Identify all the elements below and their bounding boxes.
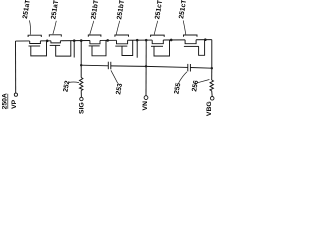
transistor 251aT (T2) gate lead <box>56 41 71 56</box>
node dot mid pair1 <box>46 40 49 43</box>
transistor 251cT (T6) gate lead <box>199 40 205 56</box>
wire VN branch vertical <box>145 40 147 96</box>
transistor 251bT (T4) gate lead <box>122 40 133 55</box>
capacitor 253 left plate <box>107 62 109 69</box>
resistor 252 zigzag <box>80 78 83 91</box>
leader label 255 <box>179 72 187 83</box>
leader label 252 <box>68 81 79 84</box>
leader label T6 <box>183 20 186 34</box>
transistor 251bT (T4) channel U <box>117 40 128 44</box>
transistor 251bT (T3) gate lead <box>92 40 106 55</box>
wire rail T2 to T3 <box>60 40 90 42</box>
capacitor 255 right plate <box>189 64 191 72</box>
node dot B (SIG branch) <box>80 39 83 42</box>
transistor 251bT (T4) gate bar <box>115 45 127 47</box>
leader label T1 <box>29 20 30 34</box>
node dot E <box>204 38 207 41</box>
node dot mid pair2 <box>106 39 109 42</box>
transistor 251cT (T6) channel U <box>185 40 196 44</box>
node dot A (stub) <box>73 39 76 42</box>
transistor 251cT (T5) top bar <box>151 35 165 37</box>
wire stub below node A <box>73 41 75 58</box>
leader label 253 <box>111 70 118 83</box>
wire SIG branch to resistor <box>80 65 82 77</box>
transistor 251cT (T5) channel U <box>152 40 163 44</box>
transistor 251cT (T6) gate bar <box>184 45 199 47</box>
leader label T4 <box>116 21 120 35</box>
wire rail T5 to T6 <box>163 39 185 41</box>
terminal SIG circle <box>80 97 83 100</box>
wire VBG vertical upper <box>211 40 213 69</box>
node dot VN wire crossing <box>145 65 147 67</box>
capacitor 253 right plate <box>110 62 112 70</box>
leader label T2 <box>53 21 56 34</box>
node dot SIG wire corner <box>80 64 82 66</box>
transistor 251aT (T1) gate lead <box>31 41 47 56</box>
transistor 251bT (T3) channel U <box>90 40 100 43</box>
svg-text:SIG: SIG <box>79 102 86 114</box>
transistor 251aT (T2) top bar <box>49 35 61 37</box>
node dot VBG wire corner <box>211 67 213 69</box>
transistor 251aT (T1) gate bar <box>29 45 41 47</box>
wire VP vertical <box>15 41 17 94</box>
capacitor 255 left plate <box>187 64 189 72</box>
wire stub below node C <box>136 40 138 58</box>
transistor 251bT (T3) gate bar <box>89 45 100 47</box>
transistor 251bT (T3) top bar <box>88 35 101 37</box>
leader label T3 <box>90 21 94 35</box>
leader label T5 <box>154 21 158 35</box>
terminal VP circle <box>14 93 17 96</box>
transistor 251bT (T4) top bar <box>115 35 129 37</box>
transistor 251aT (T2) channel U <box>51 41 61 43</box>
wire resistor 252 to SIG terminal <box>80 91 82 98</box>
wire SIG branch upper <box>80 41 82 66</box>
svg-text:VP: VP <box>11 99 18 109</box>
wire cap 255 to VBG line <box>190 66 211 69</box>
svg-text:VBG: VBG <box>206 101 213 116</box>
wire rail T4 to T5 <box>128 39 153 41</box>
transistor 251aT (T2) gate bar <box>50 44 60 46</box>
node dot mid pair3 <box>170 39 173 42</box>
svg-text:250A: 250A <box>1 93 8 109</box>
label 250A underline <box>7 94 9 109</box>
wire bottom horizontal to cap 253 <box>81 64 108 67</box>
svg-text:VN: VN <box>142 101 149 111</box>
resistor 256 zigzag <box>210 80 213 91</box>
node dot D (VN branch) <box>145 39 148 42</box>
leader label 256 <box>197 80 209 83</box>
node dot C (stub) <box>136 39 139 42</box>
wire rail T3 to T4 <box>100 39 117 41</box>
wire VN line to cap 255 <box>146 66 188 67</box>
transistor 251cT (T5) gate lead <box>154 40 170 56</box>
wire rail VP corner to T1 <box>16 40 30 42</box>
terminal VN circle <box>144 96 148 100</box>
terminal VBG circle <box>210 97 214 101</box>
wire cap 253 to VN line <box>111 65 146 67</box>
wire resistor 256 to VBG terminal <box>211 91 214 97</box>
transistor 251cT (T5) gate bar <box>151 45 163 47</box>
wire rail T1 to T2 <box>40 40 51 42</box>
wire VBG dot to resistor 256 <box>211 68 213 80</box>
transistor 251aT (T1) channel U <box>30 41 41 44</box>
wire rail T6 to right corner <box>196 39 212 41</box>
transistor 251cT (T6) top bar <box>184 35 198 37</box>
transistor 251aT (T1) top bar <box>28 35 41 37</box>
